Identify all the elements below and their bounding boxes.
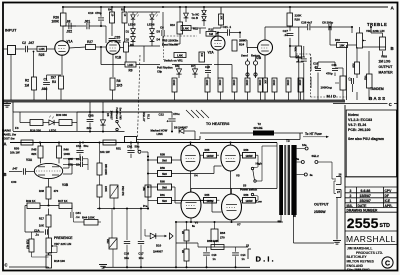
label V3B [62,183,69,187]
speaker jack J7 [336,190,341,198]
svg-text:T3: T3 [286,139,290,143]
FX jack circles 2 [246,73,257,76]
label TANDEM [370,87,384,91]
svg-text:50u: 50u [135,145,140,149]
svg-text:D8 1N4007: D8 1N4007 [174,126,188,130]
resistor R10 [170,22,182,34]
svg-text:V1A: V1A [67,39,74,43]
wire V2B cathode [264,55,266,78]
wire relay rail 2 [199,133,201,140]
svg-text:1k5W: 1k5W [206,199,213,203]
svg-text:R58: R58 [160,152,165,156]
svg-text:R60: R60 [160,179,165,183]
resistor R8 [110,78,122,90]
resistor R61 [158,193,172,204]
capacitor C10 [313,61,321,70]
wire R27 to V1B [96,46,107,48]
svg-text:470K: 470K [258,80,261,86]
svg-text:26: 26 [339,172,342,176]
svg-text:TREBLE: TREBLE [367,22,387,27]
potentiometer VR3 master [379,37,394,74]
switch S2 [116,112,121,131]
svg-text:.001: .001 [84,20,90,24]
junction dots bottom rail [126,266,237,268]
svg-text:V4-7: EL34: V4-7: EL34 [348,123,366,127]
svg-text:1: 1 [350,199,352,203]
label 470p [326,71,333,75]
wire R58 stub [148,159,158,161]
junction dots HT rail 2 [79,141,232,143]
wire cathode tie [47,75,62,80]
wire R15 to ground bus [174,92,176,100]
ground symbol left [3,102,11,107]
resistor R52 [142,185,151,197]
wire C5 to V1B grid [90,26,107,43]
svg-text:R62 LNK: R62 LNK [207,239,219,243]
wire R48 junction [47,199,49,207]
logo MARSHALL [346,234,396,244]
switch S3 high contact [251,161,262,169]
label DI [256,254,274,263]
wire C27 down [290,38,296,46]
svg-text:C28 4n7: C28 4n7 [301,20,313,24]
svg-text:50u: 50u [84,144,89,148]
svg-text:Marked NOW: Marked NOW [151,129,168,133]
resistor R38 [298,78,303,92]
wire V1A cathode down [61,55,63,75]
svg-text:10K: 10K [220,16,222,21]
wire R25 junction down [33,51,35,77]
svg-text:C30: C30 [11,180,17,184]
svg-text:R9: R9 [129,69,133,73]
HT rail wire [10,142,277,144]
wire top HT bus [62,6,388,8]
svg-text:1M: 1M [25,84,30,88]
svg-text:See also PSU diagram: See also PSU diagram [348,137,384,141]
svg-text:2555: 2555 [347,215,379,231]
node A top-right [391,5,395,10]
svg-text:1k5W: 1k5W [245,199,252,203]
treble pot value [366,29,384,33]
screen resistor R62s [243,193,256,203]
potentiometer VR2 bass [364,74,372,88]
wire bottom ground rail [103,266,250,268]
switch S3 low contact [251,193,262,203]
svg-text:ICE: ICE [385,199,391,203]
svg-text:File: 2555.DWG: File: 2555.DWG [347,268,370,272]
wire R20 to C27 [289,26,291,31]
diode D11 standby [184,7,189,22]
wire R3 to ground bus [60,89,62,100]
capacitor C4 [66,20,71,30]
wire presence tail [48,253,50,255]
svg-text:.047: .047 [12,167,18,171]
wire bass caps [347,45,370,100]
svg-text:470: 470 [54,189,59,193]
svg-text:R3: R3 [52,80,56,84]
wire D10 anode [145,229,150,236]
svg-text:STD: STD [380,223,391,229]
svg-text:15K: 15K [142,187,145,192]
svg-text:Pre: Pre [143,204,148,208]
wire V4 plate [190,143,192,146]
resistor R4 [110,12,115,23]
wire C to R18 [9,267,49,268]
revision row 3 [350,189,393,193]
svg-text:M I D: M I D [327,94,337,99]
label T3 [286,139,290,143]
svg-text:R56: R56 [244,148,249,152]
wire R45 top [41,143,60,147]
svg-text:.1u: .1u [35,233,39,237]
resistor R9 link [125,62,136,73]
resistor R27 link [86,40,96,50]
svg-text:1n: 1n [242,257,245,261]
svg-text:27: 27 [337,190,340,194]
resistor R21 [294,46,302,58]
wire R37 to ground bus [288,92,290,100]
svg-text:Send: Send [241,54,248,58]
capacitor C24 [34,228,48,236]
svg-text:10k 1W: 10k 1W [10,150,20,154]
svg-text:25/2/87: 25/2/87 [360,199,371,203]
svg-text:.022: .022 [66,30,72,34]
wire V1A plate top [63,25,76,27]
resistor R58 [158,152,172,163]
resistor R11 link [181,26,198,31]
drawing number 2555 [347,215,390,231]
capacitor Ch1 b [127,143,140,159]
junction dots bias [98,207,149,209]
svg-text:R6: R6 [130,43,134,47]
bias pot PR2 [110,185,124,198]
svg-text:C11: C11 [332,63,338,67]
wire T3 bottom right [294,215,335,243]
junction dots top bus [62,6,291,8]
svg-text:R53 220K: R53 220K [104,164,107,175]
wire vr6 down [335,68,343,100]
svg-text:PCB: JHL100: PCB: JHL100 [348,128,370,132]
heater slant wires [196,110,209,118]
wire C21 node dots [217,31,291,47]
triode V2A [208,36,226,55]
svg-text:OUTPUT: OUTPUT [314,203,330,207]
svg-text:R11: R11 [193,26,198,30]
treble label [367,22,387,27]
svg-text:DATE: DATE [358,204,368,208]
capacitor C6B [87,102,94,131]
wire R63 links [186,222,188,267]
wire jack to C2 [16,48,25,50]
wire bias entry [99,155,101,163]
svg-text:LED6: LED6 [147,23,155,27]
wire V1B out to clip rail [100,46,125,65]
transformer T3 primary bar [279,145,283,215]
svg-text:22u: 22u [87,126,92,130]
svg-text:2: 2 [350,194,352,198]
svg-text:470K: 470K [272,80,275,86]
svg-text:25/50W: 25/50W [314,210,326,214]
wire cathode to R63 [175,222,177,267]
wire R38 to ground bus [300,92,302,100]
svg-text:LNK: LNK [128,63,135,67]
wire tone verticals [304,46,335,100]
transformer T3 lam bar [284,145,286,215]
revision row 1 [350,199,391,203]
resistor R48 [39,187,59,199]
FX send jack [245,48,249,79]
wire R31 out [72,122,77,124]
svg-text:R4: R4 [108,8,112,12]
label S3 power switch [240,183,258,191]
label 90 tap [293,214,296,218]
resistor R2b bass [352,62,360,74]
svg-text:RL1: RL1 [147,114,151,120]
resistor R3 [51,76,64,89]
wire LNK R9 right [136,64,160,66]
wire R61 to V7 [172,201,222,213]
svg-text:R30 330: R30 330 [56,113,67,117]
svg-text:SEL2: SEL2 [312,154,320,158]
diode D10 [150,233,167,253]
wire bus drop x124 [124,7,126,12]
svg-text:LINK: LINK [157,132,163,136]
ground bus double line [3,100,345,102]
svg-text:R5: R5 [121,8,125,12]
svg-text:MILTON KEYNES: MILTON KEYNES [347,260,375,264]
wire switch wiring [254,146,278,200]
svg-text:To HT Fuse: To HT Fuse [305,132,322,136]
dashed panel line [138,55,141,137]
node C corner [389,102,392,107]
svg-text:4a: 4a [310,173,313,177]
wire screen drop V4 [190,143,192,146]
resistor R47 [58,199,72,209]
wire R4 down to C20 [111,23,113,36]
svg-text:R45: R45 [31,148,37,152]
svg-text:V3A: V3A [26,158,33,162]
svg-text:R28 4k7: R28 4k7 [26,240,29,250]
wire R33 to ground bus [234,92,236,100]
resistor R16 [205,78,210,92]
diode D8 [172,126,188,134]
revision header [347,204,393,208]
capacitor C1 [41,78,50,91]
LED pair LED6 [150,13,158,20]
wire tone top link [296,46,335,62]
resistor R49 [26,199,40,209]
label V3A [26,158,33,162]
capacitor C20 [109,36,121,44]
svg-text:ISS.: ISS. [347,204,353,208]
node A left [4,142,7,147]
wire LED branch [20,112,30,123]
wire secondary tap 16 [297,143,309,150]
wire R49 left down [25,206,44,233]
pentode V4 [181,145,200,177]
svg-text:V2A: V2A [208,51,215,55]
svg-text:.68: .68 [66,20,71,24]
wire R2 to ground bus [33,90,35,100]
svg-text:D10: D10 [156,243,162,247]
resistor R18 [46,255,65,268]
resistor R22a [219,14,224,25]
svg-text:.1u: .1u [284,33,288,37]
wire V3 cathode [48,179,50,187]
svg-text:D4: D4 [157,38,161,42]
diode D12 pair [202,6,206,26]
wire R25 to V1A grid [47,48,56,50]
wire heater slants 2 [186,110,199,118]
label drawing number [347,209,379,213]
svg-text:VR2: VR2 [364,76,366,81]
wire HT to T3 [276,143,278,189]
capacitor C28 [301,20,313,30]
label 8M tap [278,220,282,224]
svg-text:A: A [4,142,7,147]
label 16R 8R 4R dots [147,159,149,188]
wire R21 taps [298,27,300,100]
svg-text:3: 3 [350,189,352,193]
wire clipper bottom rail [128,12,163,46]
resistor R2 [25,77,37,90]
resistor R64 [181,249,189,261]
label SEL2 [312,154,320,164]
svg-text:Ch1: Ch1 [127,145,133,149]
resistor R34 [245,78,250,92]
resistor R17 [39,215,51,227]
wire relay rail [13,131,125,133]
resistor R25 link [37,46,47,57]
svg-text:C: C [5,262,8,267]
label MID [327,94,337,99]
transformer T3 core bar [288,145,290,215]
open arrow D [170,233,174,239]
svg-text:R49 1K: R49 1K [26,199,35,203]
label to NC on B [192,12,200,19]
wire clipper top rail [128,12,160,14]
label send return [241,54,260,58]
screen resistor R57 [204,193,217,203]
wire V2A plate to C21 [218,33,227,37]
svg-text:R55: R55 [205,193,210,197]
label mains panel sw [2,126,19,140]
svg-text:Clip: Clip [157,69,162,73]
wire bias cols [112,209,141,268]
wire C8 right [332,27,353,33]
label pull panel sw [115,108,122,121]
input jack J1 [3,46,16,55]
pentode V5 [221,145,240,177]
diode D5 [100,102,105,131]
resistor R46 [57,146,71,158]
wire mains top [13,112,77,131]
LED LED1 [49,113,67,125]
resistor R13 link [174,53,186,58]
svg-text:Power switch: Power switch [240,187,258,191]
svg-text:15/5/87: 15/5/87 [360,194,371,198]
wire R58 to V4 [172,159,182,161]
wire C35 C31 to V3 [63,159,88,170]
pentode V6 [181,192,201,224]
svg-text:6-6-88: 6-6-88 [361,189,371,193]
wire cathode bus [176,221,283,223]
wire R19 [330,27,357,45]
svg-text:470K: 470K [245,80,248,86]
label RELAY RL1 [142,113,151,122]
wire V1B out [120,47,124,49]
wire V6 plate bus [191,189,277,195]
resistor R51 [100,140,121,154]
svg-text:C1: C1 [44,78,48,82]
svg-text:270: 270 [220,235,225,239]
svg-text:DRAWING NUMBER: DRAWING NUMBER [347,209,379,213]
svg-text:Sw on V#3: Sw on V#3 [119,108,122,121]
title block left border [344,105,346,271]
junction dots strip [89,111,173,133]
wire R41 ground [264,92,266,100]
resistor R53 [97,163,107,175]
svg-text:10u: 10u [124,256,129,260]
capacitor C31 [68,162,83,167]
svg-text:VR8: VR8 [381,54,387,58]
svg-text:To NC: To NC [192,12,200,16]
DI jack J8 [246,244,251,259]
revision table grid [345,177,398,212]
svg-text:V2B: V2B [255,56,262,60]
svg-text:47K: 47K [294,47,297,52]
svg-text:S3: S3 [243,183,247,187]
svg-text:R61: R61 [160,193,165,197]
resistor R28 [26,239,35,252]
wire V5 cathode chain [230,171,232,194]
resistor R65 [211,229,226,241]
resistor R63 [181,230,189,241]
resistor R12 [206,27,216,36]
resistor R6 [124,42,135,52]
svg-text:D5: D5 [106,113,110,117]
wire R59 stub [148,173,158,175]
node B top-right [391,46,394,51]
wire treble to B [360,27,387,47]
svg-text:R63: R63 [220,231,226,235]
svg-text:1k5W: 1k5W [245,154,252,158]
wire V2B plate [265,27,307,40]
label VR5 lead master [162,38,179,46]
wire R17 to presence [48,227,50,238]
svg-text:1M LOG: 1M LOG [379,59,392,63]
svg-text:470u: 470u [173,112,180,116]
wire bus drop x112 [111,7,113,12]
resistor R36 [272,78,277,92]
wire V7 cathode [231,220,233,222]
capacitor C10 feedback [88,6,104,27]
wire heater mid [77,111,172,113]
wire bus drop x221 [220,7,222,14]
svg-text:R22: R22 [106,239,109,244]
wire T3 bottom left [280,215,282,222]
svg-text:2k7: 2k7 [51,76,56,80]
junction dots cathode bus [175,221,233,223]
wire screen links [200,155,258,200]
svg-text:R27: R27 [87,40,93,44]
svg-text:DF: DF [385,194,389,198]
resistor R59 [158,166,172,177]
wire R11 to R12 [191,28,206,34]
svg-text:10K: 10K [264,80,266,85]
wire R28 links [32,232,49,257]
svg-text:C8 200p: C8 200p [322,20,333,24]
